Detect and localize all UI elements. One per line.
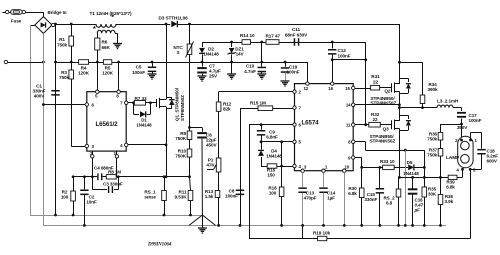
- svg-text:R15 1M: R15 1M: [250, 100, 266, 105]
- svg-text:11: 11: [346, 123, 351, 128]
- svg-text:Q3: Q3: [383, 126, 390, 131]
- svg-text:68nF 630V: 68nF 630V: [285, 33, 308, 38]
- svg-text:30K: 30K: [428, 192, 437, 197]
- svg-text:sense: sense: [144, 195, 156, 200]
- svg-text:1N4148: 1N4148: [266, 154, 282, 159]
- svg-text:Q2: Q2: [384, 88, 391, 93]
- svg-text:750K: 750K: [175, 154, 187, 159]
- svg-text:R6: R6: [102, 40, 108, 45]
- svg-text:1µF: 1µF: [327, 196, 335, 201]
- svg-text:*: *: [93, 24, 96, 33]
- svg-text:C11: C11: [292, 27, 301, 32]
- svg-text:120K: 120K: [102, 71, 114, 76]
- svg-text:1.5k: 1.5k: [205, 194, 214, 199]
- svg-text:R19 10k: R19 10k: [313, 231, 331, 236]
- svg-text:S: S: [177, 50, 180, 55]
- svg-text:L6574: L6574: [301, 120, 319, 127]
- svg-text:6.8nF: 6.8nF: [266, 135, 278, 140]
- svg-text:100nF: 100nF: [469, 118, 482, 123]
- svg-text:Bridge In: Bridge In: [48, 10, 67, 15]
- svg-text:R33 10: R33 10: [380, 159, 395, 164]
- svg-text:470pF: 470pF: [304, 196, 317, 201]
- svg-text:600V: 600V: [487, 159, 498, 164]
- svg-text:L3_2.1mH: L3_2.1mH: [437, 98, 459, 103]
- svg-text:9.53K: 9.53K: [174, 195, 187, 200]
- svg-text:D3 STTH1L06: D3 STTH1L06: [159, 16, 189, 21]
- svg-text:Fuse: Fuse: [11, 19, 22, 24]
- svg-text:750k: 750k: [57, 43, 68, 48]
- svg-text:22: 22: [373, 117, 379, 122]
- svg-text:120K: 120K: [78, 71, 90, 76]
- svg-text:16: 16: [328, 86, 333, 91]
- svg-text:750k: 750k: [59, 75, 70, 80]
- svg-text:Q1_STP8NM50/: Q1_STP8NM50/: [175, 87, 180, 121]
- svg-text:3.9k: 3.9k: [445, 199, 454, 204]
- svg-text:6.8: 6.8: [386, 201, 393, 206]
- svg-text:1N4148: 1N4148: [203, 52, 219, 57]
- svg-text:100nF: 100nF: [286, 70, 299, 75]
- svg-text:450V: 450V: [206, 143, 218, 148]
- svg-text:6.8k: 6.8k: [446, 184, 455, 189]
- svg-text:750k: 750k: [427, 137, 437, 142]
- svg-text:D99IN1064: D99IN1064: [147, 243, 172, 248]
- svg-text:150: 150: [267, 172, 275, 177]
- svg-text:750k: 750k: [427, 153, 437, 158]
- svg-text:14V: 14V: [236, 52, 245, 57]
- svg-text:R8 1M: R8 1M: [108, 170, 121, 175]
- svg-text:66K: 66K: [102, 45, 111, 50]
- svg-text:12: 12: [303, 86, 308, 91]
- svg-text:100: 100: [61, 195, 69, 200]
- svg-text:400V: 400V: [34, 94, 46, 99]
- svg-text:15: 15: [345, 86, 350, 91]
- svg-text:*: *: [111, 13, 114, 22]
- svg-text:R1: R1: [59, 37, 65, 42]
- svg-text:350V: 350V: [457, 125, 468, 130]
- svg-text:µF: µF: [414, 208, 421, 213]
- svg-text:4.7nF: 4.7nF: [244, 69, 256, 74]
- svg-text:25V: 25V: [209, 74, 218, 79]
- svg-text:R14 10: R14 10: [240, 33, 255, 38]
- svg-text:10nF: 10nF: [86, 200, 97, 205]
- svg-text:C3 330nF: C3 330nF: [103, 181, 123, 186]
- svg-text:10: 10: [344, 165, 349, 170]
- svg-text:L6561/2: L6561/2: [95, 121, 118, 128]
- svg-text:100nF: 100nF: [338, 54, 351, 59]
- svg-text:100nF: 100nF: [225, 194, 238, 199]
- svg-text:R31: R31: [371, 74, 380, 79]
- svg-text:STP4NK50Z: STP4NK50Z: [370, 139, 396, 144]
- svg-text:82k: 82k: [223, 106, 231, 111]
- svg-text:100: 100: [269, 191, 277, 196]
- svg-text:1N4148: 1N4148: [136, 122, 152, 127]
- svg-text:750K: 750K: [175, 136, 187, 141]
- svg-text:22: 22: [373, 79, 379, 84]
- svg-text:LAMP: LAMP: [446, 155, 460, 161]
- svg-text:R7 33: R7 33: [135, 96, 148, 101]
- svg-text:6.8k: 6.8k: [348, 191, 357, 196]
- svg-text:STP8NM50Z: STP8NM50Z: [180, 95, 185, 121]
- svg-text:14: 14: [346, 103, 351, 108]
- svg-text:330nF: 330nF: [364, 197, 377, 202]
- svg-text:390k: 390k: [427, 87, 438, 92]
- svg-text:D5: D5: [407, 160, 413, 165]
- svg-text:47K: 47K: [206, 163, 215, 168]
- svg-text:100nF: 100nF: [132, 70, 145, 75]
- svg-text:C12: C12: [338, 48, 347, 53]
- svg-text:R17 47: R17 47: [266, 34, 281, 39]
